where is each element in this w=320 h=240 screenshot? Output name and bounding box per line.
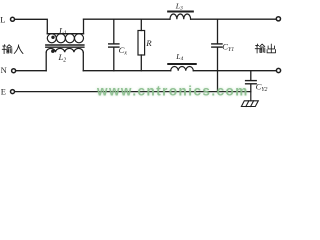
terminal N (input neutral)	[12, 69, 16, 73]
terminal E (input earth)	[11, 90, 15, 94]
choke core bars	[46, 45, 84, 47]
resistor R lead bottom	[140, 55, 142, 71]
label 输出 (output) drawn as strokes	[255, 44, 275, 53]
label 输入 (input) drawn as strokes	[2, 45, 23, 54]
wire top rail choke to L3	[84, 18, 171, 20]
wire choke L2 right lead down to N rail	[82, 52, 84, 70]
polarity dot of L2	[51, 50, 54, 53]
inductor L1 winding of common-mode choke	[47, 34, 83, 43]
svg-text:Cx: Cx	[119, 45, 128, 56]
resistor R lead top	[140, 19, 142, 30]
svg-text:CY1: CY1	[222, 42, 234, 53]
wire N rail L4 to output	[193, 70, 276, 72]
wire choke L2 left lead down to N rail	[45, 52, 47, 70]
svg-text:N: N	[1, 65, 7, 75]
svg-text:L4: L4	[175, 52, 183, 62]
svg-text:L: L	[0, 14, 5, 24]
ground stub wire	[250, 92, 252, 101]
wire N terminal to choke	[16, 70, 46, 72]
svg-text:L2: L2	[58, 52, 67, 63]
inductor L3 coil	[170, 14, 191, 19]
svg-text:R: R	[145, 38, 152, 48]
inductor L3 core bar	[168, 10, 193, 12]
inductor L4 core bar	[168, 63, 195, 65]
terminal output L	[276, 17, 280, 21]
wire top rail L3 to output	[191, 18, 277, 20]
svg-text:www.cntronics.com: www.cntronics.com	[96, 84, 249, 99]
wire E rail	[15, 91, 251, 93]
capacitor CY1 lead top	[217, 19, 219, 43]
svg-text:CY2: CY2	[256, 82, 268, 93]
inductor L2 winding of common-mode choke	[46, 48, 83, 52]
terminal L (input live)	[11, 17, 15, 21]
capacitor CY1 plates	[212, 44, 222, 47]
terminal output N	[276, 68, 280, 72]
wire choke L1 right lead up to top rail	[83, 19, 85, 34]
capacitor CY2 lead top	[250, 71, 252, 80]
capacitor Cx lead bottom	[113, 48, 115, 71]
wire N rail choke to L4	[83, 70, 170, 72]
polarity dot of L1	[51, 36, 54, 39]
wire from L terminal to choke	[15, 19, 47, 33]
capacitor Cx plates	[109, 44, 119, 47]
resistor R body	[138, 31, 145, 56]
svg-text:L1: L1	[58, 25, 67, 36]
inductor L4 coil	[171, 67, 194, 71]
capacitor CY2 plates	[246, 81, 257, 84]
capacitor Cx lead top	[113, 19, 115, 43]
capacitor CY1 lead bottom to E rail	[217, 48, 219, 92]
capacitor CY2 lead bottom to E rail	[250, 84, 252, 91]
svg-text:E: E	[1, 87, 6, 97]
svg-text:L3: L3	[175, 1, 183, 11]
ground symbol (hatched chassis earth)	[241, 101, 258, 107]
